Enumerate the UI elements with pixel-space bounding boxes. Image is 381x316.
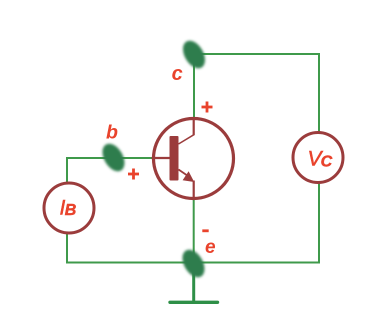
svg-text:c: c <box>172 63 183 85</box>
svg-text:C: C <box>321 154 333 171</box>
svg-text:b: b <box>106 122 118 144</box>
svg-text:B: B <box>65 202 77 219</box>
svg-text:e: e <box>205 237 216 258</box>
